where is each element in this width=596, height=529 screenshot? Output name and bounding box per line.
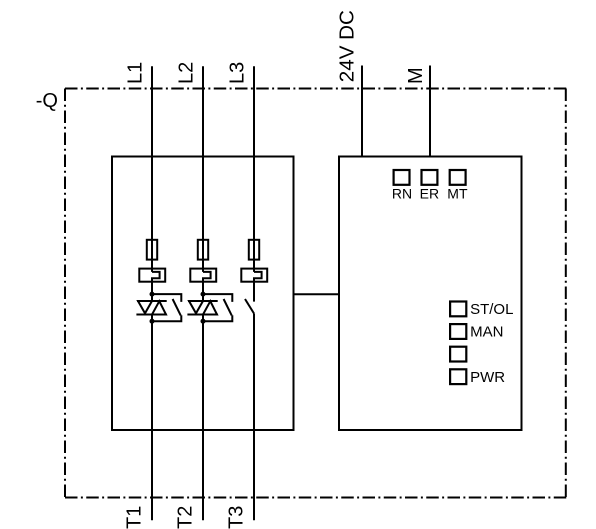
svg-text:L1: L1	[125, 62, 147, 84]
svg-text:T1: T1	[124, 506, 146, 529]
svg-text:M: M	[405, 67, 427, 84]
node junction top phase L2	[201, 292, 206, 297]
terminal label T1	[124, 506, 146, 529]
supply label M	[405, 67, 427, 84]
wire phase L1 overload detour	[152, 272, 160, 301]
svg-text:PWR: PWR	[470, 369, 505, 386]
indicator LED MT	[450, 170, 466, 185]
svg-text:T3: T3	[226, 506, 248, 529]
indicator LED PWR	[450, 369, 466, 384]
enclosure boundary -Q (dash-dot frame)	[65, 89, 567, 498]
supply label 24V DC	[336, 10, 359, 82]
terminal label L2	[176, 62, 198, 84]
node junction bottom phase L2	[201, 319, 206, 324]
node junction bottom phase L1	[150, 319, 155, 324]
svg-text:L3: L3	[227, 62, 249, 84]
wire M supply	[429, 66, 431, 157]
wire phase L1 (bottom section T1)	[151, 315, 153, 521]
svg-text:ER: ER	[420, 185, 439, 201]
wire phase L2 overload detour	[203, 272, 211, 301]
bypass contact phase L2	[203, 294, 232, 321]
wire 24V DC supply	[361, 66, 363, 157]
node junction top phase L1	[150, 292, 155, 297]
terminal label L1	[125, 62, 147, 84]
svg-text:L2: L2	[176, 62, 198, 84]
indicator LED ST/OL	[450, 302, 466, 317]
terminal label T2	[175, 506, 197, 529]
svg-text:24V DC: 24V DC	[336, 10, 359, 82]
wire phase L3 (bottom section T3)	[253, 314, 255, 521]
wire phase L2 (top section)	[202, 66, 204, 272]
label MAN	[470, 324, 503, 341]
label RN	[392, 185, 412, 201]
thermal overload element phase L1	[139, 269, 165, 282]
svg-text:-Q: -Q	[36, 90, 58, 112]
terminal label L3	[227, 62, 249, 84]
svg-text:ST/OL: ST/OL	[470, 301, 513, 318]
label ST/OL	[470, 301, 513, 318]
indicator LED RN	[394, 170, 410, 185]
label PWR	[470, 369, 505, 386]
svg-text:T2: T2	[175, 506, 197, 529]
svg-text:MT: MT	[447, 185, 468, 201]
svg-text:MAN: MAN	[470, 324, 503, 341]
reference designator label -Q	[36, 90, 58, 112]
indicator LED ER	[422, 170, 438, 185]
wire phase L3 (top section)	[253, 66, 255, 272]
indicator LED blank	[450, 347, 466, 362]
thermal overload element phase L2	[190, 269, 216, 282]
bypass contact phase L1	[152, 294, 181, 321]
semiconductor fuse element phase L2	[198, 240, 208, 260]
indicator LED MAN	[450, 324, 466, 339]
thermal overload element phase L3	[241, 269, 267, 282]
label MT	[447, 185, 468, 201]
wire phase L3 overload detour	[254, 272, 262, 302]
label ER	[420, 185, 439, 201]
wire link between power box and control box	[294, 293, 340, 295]
contact phase L3	[245, 299, 254, 314]
svg-text:RN: RN	[392, 185, 412, 201]
antiparallel thyristor pair phase L1	[136, 301, 166, 315]
wire phase L1 (top section)	[151, 66, 153, 272]
semiconductor fuse element phase L1	[147, 240, 157, 260]
power section box (left)	[112, 157, 294, 431]
terminal label T3	[226, 506, 248, 529]
control/electronics box (right)	[339, 157, 522, 431]
semiconductor fuse element phase L3	[249, 240, 259, 260]
wire phase L2 (bottom section T2)	[202, 315, 204, 521]
antiparallel thyristor pair phase L2	[187, 301, 217, 315]
